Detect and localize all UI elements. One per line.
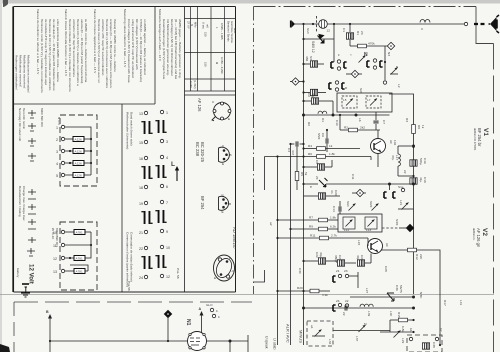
- R6 1.8k wire: [265, 152, 372, 158]
- svg-text:15: 15: [139, 141, 143, 145]
- svg-text:5: 5: [56, 174, 58, 178]
- svg-text:a1: a1: [310, 325, 314, 329]
- label 486 S3: [305, 56, 313, 61]
- svg-text:R7: R7: [309, 216, 313, 220]
- svg-text:N1: N1: [185, 319, 191, 326]
- speaker connector symbol: [291, 21, 297, 28]
- svg-text:(R — 10 M) bei FM (Klammerwert: (R — 10 M) bei FM (Klammerwerte) und bei: [174, 19, 178, 79]
- fuse box terminal 10: [65, 230, 91, 235]
- svg-text:Nennspg / DC rated volt: Nennspg / DC rated volt: [18, 108, 22, 141]
- table texts: [187, 21, 238, 89]
- transistor AD156/157 outline: [213, 227, 237, 281]
- svg-text:500µ: 500µ: [419, 158, 423, 165]
- svg-text:R5: R5: [300, 172, 304, 176]
- svg-text:A781: A781: [76, 231, 84, 235]
- svg-text:10: 10: [53, 231, 57, 235]
- svg-text:3.9k: 3.9k: [322, 293, 328, 297]
- svg-text:C36: C36: [395, 285, 399, 291]
- svg-text:MHz: MHz: [194, 22, 198, 28]
- svg-text:V2: V2: [481, 228, 488, 236]
- svg-text:AD 156/157: AD 156/157: [232, 227, 237, 250]
- resistor R5 5k vertical: [295, 147, 308, 190]
- lower section resistor 3.9k: [276, 286, 330, 297]
- svg-text:mV: mV: [206, 24, 210, 28]
- note paragraph italian: [64, 9, 88, 92]
- label C22: [315, 252, 323, 258]
- svg-text:a: a: [337, 54, 341, 56]
- svg-text:S3/II: S3/II: [395, 219, 399, 226]
- svg-text:A126: A126: [75, 150, 83, 154]
- svg-text:E: E: [309, 186, 313, 188]
- svg-text:ZF: ZF: [315, 176, 319, 180]
- label R1 23: [356, 31, 364, 35]
- svg-text:Änderungen vorbehalten!: Änderungen vorbehalten!: [15, 55, 19, 90]
- svg-text:L21: L21: [399, 200, 403, 205]
- svg-text:L32: L32: [328, 339, 332, 344]
- svg-text:Tensiones contin (1.5/0 V) y m: Tensiones contin (1.5/0 V) y medidas con…: [40, 19, 44, 93]
- wire transistor collector top: [378, 130, 415, 147]
- svg-text:L11: L11: [344, 228, 349, 232]
- svg-text:C8: C8: [315, 160, 319, 164]
- label R8 1k: [417, 125, 425, 129]
- svg-text:C10: C10: [335, 120, 339, 126]
- svg-text:voltmètre UHF resp HF suivant: voltmètre UHF resp HF suivant indication: [101, 19, 105, 76]
- cap C13: [339, 201, 341, 214]
- svg-text:21: 21: [336, 269, 340, 273]
- R15 6.8k: [390, 318, 415, 322]
- svg-text:10: 10: [166, 246, 170, 250]
- svg-text:56/75: 56/75: [399, 285, 403, 293]
- svg-text:R15: R15: [397, 312, 401, 318]
- svg-text:S2/I: S2/I: [359, 88, 363, 94]
- top supply wire: [296, 23, 466, 25]
- svg-text:b: b: [218, 315, 220, 319]
- svg-text:0.505 – 1.605: 0.505 – 1.605: [220, 23, 224, 40]
- contact pad pair c: [329, 81, 348, 91]
- svg-text:C26: C26: [360, 255, 364, 261]
- fuse box terminal 13: [65, 269, 88, 274]
- svg-text:7: 7: [166, 201, 168, 205]
- fuse box terminal 5: [65, 173, 88, 178]
- schematic right border solid top: [476, 7, 494, 44]
- svg-text:13: 13: [53, 270, 57, 274]
- battery plus icon: [27, 248, 35, 256]
- mixer transistor V3: [371, 139, 386, 154]
- svg-text:2k2: 2k2: [360, 126, 365, 130]
- svg-text:b: b: [216, 309, 218, 313]
- svg-text:S4/II 12: S4/II 12: [311, 41, 315, 53]
- schematic top dash-dot border: [254, 6, 477, 8]
- R7 1.8k wire: [276, 216, 338, 222]
- svg-text:Meßwerte bezogen auf U batt —: Meßwerte bezogen auf U batt — 14 V: [158, 9, 162, 62]
- cap C43 on wire: [342, 305, 347, 315]
- svg-text:N 1-4: N 1-4: [57, 117, 61, 125]
- svg-text:Circuit voltages (1.5/0 V) mea: Circuit voltages (1.5/0 V) measured with…: [127, 19, 131, 83]
- legend horizontal divider: [14, 103, 156, 105]
- svg-text:18: 18: [139, 186, 143, 190]
- switch group 4 contacts 10-12: [155, 245, 170, 279]
- svg-text:S1e: S1e: [398, 185, 404, 189]
- svg-text:16: 16: [139, 157, 143, 161]
- svg-text:L41: L41: [459, 300, 463, 305]
- bottom-left corner black mark: [0, 344, 10, 352]
- AVC bus vertical: [290, 144, 292, 345]
- bottom dashed box right: [407, 328, 443, 352]
- svg-text:C38: C38: [432, 342, 436, 348]
- V1 stage label: [473, 128, 489, 151]
- svg-text:12 Volt: 12 Volt: [28, 264, 35, 284]
- coil L39: [360, 304, 373, 316]
- top grey scan edge: [0, 0, 500, 4]
- svg-text:C14: C14: [332, 206, 336, 212]
- svg-text:b1: b1: [409, 328, 413, 332]
- svg-text:5k: 5k: [304, 172, 308, 176]
- note paragraph german: [158, 9, 182, 79]
- resistor 470k: [350, 42, 395, 50]
- svg-text:3: 3: [56, 150, 58, 154]
- svg-text:E: E: [228, 117, 230, 121]
- legend outer box border: [14, 7, 236, 293]
- svg-text:S3: S3: [309, 56, 313, 60]
- bottom strip dashed top border: [14, 301, 252, 303]
- svg-text:B: B: [229, 256, 231, 260]
- svg-text:150: 150: [204, 62, 208, 67]
- svg-text:E: E: [222, 162, 224, 166]
- IF transistor V2: [368, 238, 383, 254]
- svg-text:AF 126: AF 126: [197, 98, 202, 112]
- svg-text:Modifications reserved!: Modifications reserved!: [19, 55, 23, 87]
- detector diode wire y297: [350, 293, 415, 301]
- svg-text:S1/I: S1/I: [306, 28, 310, 34]
- fuse box terminal 3: [65, 149, 88, 154]
- svg-text:486: 486: [305, 56, 309, 61]
- svg-text:L: L: [171, 161, 175, 168]
- GLO terminals: [206, 303, 220, 319]
- switch group 3 contacts 19-21: [139, 201, 153, 235]
- cap on osc right: [373, 112, 378, 130]
- contact pads upper row y276: [333, 269, 358, 288]
- bottom main wire: [50, 340, 248, 342]
- battery icon glyphs column 1: [28, 110, 36, 161]
- svg-text:41µ: 41µ: [419, 177, 423, 182]
- svg-text:BC 238: BC 238: [195, 142, 200, 157]
- svg-text:MHz: MHz: [233, 28, 237, 34]
- svg-text:L7: L7: [367, 98, 371, 102]
- note paragraph english: [123, 9, 147, 83]
- svg-text:de medida UHF resp. HF segun l: de medida UHF resp. HF segun lo indicado…: [44, 19, 48, 85]
- band switch caption: [126, 112, 181, 291]
- IF wire y184 right: [326, 183, 415, 190]
- R12 220: [408, 248, 424, 260]
- svg-text:1: 1: [56, 126, 58, 130]
- svg-text:C24: C24: [338, 255, 342, 261]
- svg-text:L13: L13: [366, 228, 371, 232]
- coil S3 hatched: [302, 61, 324, 67]
- svg-text:0.460: 0.460: [189, 81, 193, 88]
- svg-text:22: 22: [139, 247, 143, 251]
- minus bus vertical: [303, 24, 305, 345]
- svg-text:4n7: 4n7: [291, 150, 295, 155]
- svg-text:150: 150: [204, 32, 208, 37]
- C18 cap: [398, 176, 417, 184]
- svg-text:C30: C30: [298, 268, 302, 274]
- svg-text:Tensioni CC (1.5/0 V) e misura: Tensioni CC (1.5/0 V) e misurate con vol…: [76, 19, 80, 86]
- antenna lead dashes: [474, 23, 487, 25]
- zener diode S4: [302, 35, 334, 44]
- svg-text:thèses) sur AM/80 contre la —: thèses) sur AM/80 contre la — batterie: [113, 19, 117, 72]
- svg-text:L40: L40: [389, 311, 393, 316]
- svg-text:19: 19: [139, 202, 143, 206]
- svg-text:BC 320-25: BC 320-25: [200, 142, 205, 163]
- IF coil 2: [365, 217, 377, 232]
- svg-text:24: 24: [139, 276, 143, 280]
- svg-text:L17: L17: [395, 155, 399, 160]
- svg-text:b2: b2: [439, 328, 443, 332]
- frequency table: [185, 7, 236, 92]
- terminal 1: [61, 125, 64, 128]
- hatched cap row C22: [302, 258, 337, 264]
- svg-text:R3: R3: [405, 118, 409, 122]
- antenna symbol: [489, 15, 500, 33]
- wire to R8 top: [389, 94, 414, 115]
- label C2 40u: [307, 93, 315, 98]
- svg-text:106: 106: [393, 140, 397, 145]
- IF can box: [338, 214, 382, 232]
- svg-text:12: 12: [53, 257, 57, 261]
- svg-text:A: A: [199, 307, 202, 311]
- svg-text:DC voltages (1.5/0 V) measured: DC voltages (1.5/0 V) measured with: [135, 19, 139, 70]
- contact pad pair b: [367, 59, 383, 69]
- svg-text:8900 890 000: 8900 890 000: [40, 108, 44, 127]
- svg-text:(1.452): (1.452): [193, 80, 197, 89]
- contact pad pair a: [331, 60, 347, 70]
- left grey scan edge: [0, 0, 2, 352]
- transistor BC238 outline: [195, 142, 232, 166]
- svg-text:Valeurs de mesure rapportées à: Valeurs de mesure rapportées à U batt — …: [93, 9, 97, 74]
- R4 1k wire: [302, 144, 360, 150]
- svg-text:C22: C22: [315, 252, 319, 258]
- svg-text:mit Meßinstrumenten gemessen w: mit Meßinstrumenten gemessen wie ang.: [166, 19, 170, 76]
- terminal 13: [61, 269, 64, 272]
- svg-text:40µ: 40µ: [311, 93, 315, 98]
- coil L17 47u: [398, 146, 400, 176]
- fuse box terminal 4: [65, 161, 88, 166]
- svg-text:entre paréntesis para AM/80 co: entre paréntesis para AM/80 contra — bat…: [56, 19, 60, 82]
- svg-text:R11: R11: [310, 234, 316, 238]
- svg-text:R20: R20: [297, 286, 303, 290]
- svg-text:D1: D1: [321, 118, 325, 122]
- L arrow: [171, 161, 179, 181]
- switch group 4 contacts 22-24: [139, 246, 153, 280]
- Ustab bus vertical: [277, 157, 279, 346]
- C16 electrolytic: [410, 146, 417, 177]
- terminal 12: [61, 256, 64, 259]
- svg-text:L39: L39: [367, 311, 371, 316]
- svg-text:Measuring values related to U: Measuring values related to U batt — 14 …: [123, 9, 127, 68]
- svg-text:Band switch (lower side): Band switch (lower side): [130, 112, 134, 146]
- svg-text:R2: R2: [344, 126, 348, 130]
- svg-text:R4: R4: [308, 144, 312, 148]
- label C16: [419, 158, 427, 165]
- svg-text:A126: A126: [75, 174, 83, 178]
- bottom strip dashed left border: [13, 302, 15, 352]
- legend vertical divider x=155: [154, 7, 156, 105]
- svg-text:22: 22: [345, 299, 349, 303]
- svg-text:9: 9: [166, 230, 168, 234]
- V2 stage label: [472, 228, 488, 248]
- oscillator box: [337, 93, 392, 112]
- svg-text:12: 12: [327, 29, 331, 33]
- fold crease line: [0, 294, 494, 296]
- label C36: [395, 285, 403, 293]
- switch dashed link: [316, 16, 318, 33]
- svg-text:uring instrument UHF resp HF a: uring instrument UHF resp HF as indicate…: [131, 19, 135, 78]
- svg-text:24: 24: [336, 299, 340, 303]
- svg-text:S5/II: S5/II: [317, 133, 321, 140]
- svg-text:C1: C1: [342, 28, 346, 32]
- svg-text:6.2k: 6.2k: [330, 225, 336, 229]
- svg-text:11: 11: [53, 244, 57, 248]
- svg-text:BF 254: BF 254: [200, 196, 205, 210]
- electrolytic C3: [302, 89, 326, 95]
- svg-text:Tens DC nomin: Tens DC nomin: [22, 108, 26, 129]
- svg-text:ZF / IF: ZF / IF: [187, 21, 191, 29]
- svg-text:A781: A781: [76, 270, 84, 274]
- IF coil 1: [343, 217, 355, 232]
- svg-text:ab/from FD 275001: ab/from FD 275001: [473, 128, 477, 151]
- svg-text:voltmetro UHF risp HF second i: voltmetro UHF risp HF second indicazione: [72, 19, 76, 77]
- terminal box1 wiring: [65, 127, 92, 175]
- terminal dashed box 1: [60, 115, 97, 186]
- diode detector: [302, 178, 327, 187]
- label AF: [385, 243, 389, 247]
- svg-text:13: 13: [139, 112, 143, 116]
- note Aenderungen vorbehalten block: [15, 55, 31, 93]
- svg-text:Gesamtspannungen (1.5/0 V) mit: Gesamtspannungen (1.5/0 V) mit gleich-wi…: [162, 19, 166, 79]
- label C4 4n7: [287, 148, 295, 155]
- svg-text:L29: L29: [401, 338, 405, 343]
- hatched cap row C26: [357, 254, 371, 267]
- node A arrow: [199, 307, 204, 331]
- svg-text:BF 254 br: BF 254 br: [477, 128, 482, 147]
- svg-text:2: 2: [56, 138, 58, 142]
- svg-text:C7: C7: [382, 120, 386, 124]
- R8 1k vertical: [412, 115, 416, 294]
- svg-text:M: M: [364, 322, 367, 326]
- svg-text:R6: R6: [308, 152, 312, 156]
- filled diamond test: [399, 224, 414, 232]
- transistor BF254 outline: [200, 193, 231, 214]
- pilot lamp: [319, 20, 331, 33]
- trimmer S6b: [369, 201, 379, 211]
- svg-text:E: E: [222, 210, 224, 214]
- emitter drop wire: [371, 154, 378, 168]
- corner wire to border: [264, 157, 266, 191]
- svg-text:su AM/80 contro la — batteria: su AM/80 contro la — batteria second sch…: [84, 19, 88, 83]
- svg-text:ab/from m.: ab/from m.: [472, 228, 476, 241]
- cap C6 4n: [326, 129, 328, 152]
- svg-text:6.8k: 6.8k: [401, 326, 405, 332]
- svg-text:1: 1: [166, 111, 168, 115]
- svg-text:R9: R9: [309, 225, 313, 229]
- svg-text:U stab: U stab: [273, 338, 278, 350]
- osc module 1: [342, 96, 357, 108]
- svg-text:à lampes (R — 10 M) sur FM (va: à lampes (R — 10 M) sur FM (valeurs entr…: [109, 19, 113, 88]
- label L17 47u: [391, 155, 399, 160]
- svg-text:A781: A781: [76, 257, 84, 261]
- svg-text:R17: R17: [443, 300, 447, 306]
- R2 2k2: [339, 114, 380, 132]
- svg-text:Tensions mesur (1.5/0 V) et me: Tensions mesur (1.5/0 V) et mesurées ave…: [97, 19, 101, 83]
- svg-text:23: 23: [360, 31, 364, 35]
- svg-text:22: 22: [342, 312, 346, 316]
- svg-text:470k: 470k: [368, 42, 375, 46]
- wire lamp branch vertical: [333, 24, 335, 62]
- switch N trimmer: [359, 52, 369, 63]
- svg-text:N: N: [396, 65, 398, 69]
- test diamond 1: [346, 70, 362, 77]
- svg-text:U speak: U speak: [265, 336, 269, 349]
- bottom wire risers: [202, 331, 249, 352]
- trimmer S6a: [346, 201, 356, 211]
- label 4n C20: [330, 190, 338, 196]
- label C18: [419, 177, 427, 183]
- svg-text:Gleichspgn (1.5/0 V) mit Röhre: Gleichspgn (1.5/0 V) mit Röhrenvoltmeter: [170, 19, 174, 76]
- svg-text:1k: 1k: [329, 144, 333, 148]
- svg-text:A126: A126: [75, 138, 83, 142]
- filled diamond bottom: [164, 310, 172, 342]
- top-left corner mark: [3, 0, 8, 7]
- legend vertical divider x=122: [121, 104, 123, 292]
- scattered value labels: [269, 28, 463, 306]
- svg-text:23: 23: [344, 269, 348, 273]
- svg-text:6: 6: [166, 185, 168, 189]
- svg-text:C28: C28: [384, 266, 388, 272]
- dashed box L32: [307, 321, 333, 346]
- battery symbol: [21, 284, 30, 297]
- wire with trimmer M: [333, 322, 390, 341]
- svg-text:R2: R2: [307, 122, 311, 126]
- svg-text:L2: L2: [397, 84, 401, 88]
- cap C20 hatched: [304, 193, 341, 199]
- note paragraph spanish: [36, 9, 60, 93]
- svg-text:AF: AF: [389, 140, 393, 144]
- contact pad y308: [333, 299, 349, 311]
- svg-text:21: 21: [139, 231, 143, 235]
- svg-text:S6/II: S6/II: [369, 201, 373, 208]
- terminal 11: [61, 243, 64, 246]
- svg-text:C20: C20: [334, 190, 338, 196]
- electrolytic C1: [346, 24, 353, 46]
- terminal dashed box 2: [60, 222, 97, 290]
- svg-text:Modificaciones reservadas!: Modificaciones reservadas!: [27, 55, 31, 93]
- wire choke on top wire: [420, 20, 430, 23]
- switch group 1 contacts 13-15: [139, 111, 153, 145]
- label C8: [315, 160, 319, 164]
- svg-text:C16: C16: [423, 158, 427, 164]
- battery icon glyphs column 2: [28, 189, 36, 243]
- svg-text:380p: 380p: [334, 255, 338, 262]
- svg-text:MINUS: MINUS: [299, 330, 304, 343]
- svg-text:VTVM (R — 10 M) on FM (values: VTVM (R — 10 M) on FM (values in bracket…: [139, 19, 143, 82]
- wire osc feed: [302, 101, 389, 116]
- switch group 3 contacts 7-9: [155, 200, 168, 234]
- svg-text:AF 126 gn: AF 126 gn: [476, 228, 481, 248]
- svg-text:C4: C4: [287, 148, 291, 152]
- svg-text:1.8k: 1.8k: [330, 216, 336, 220]
- svg-text:220: 220: [419, 254, 423, 259]
- schematic right dashed border: [493, 44, 495, 352]
